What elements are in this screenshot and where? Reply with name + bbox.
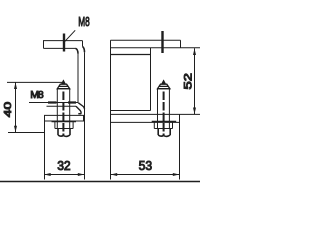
baseline ground line	[0, 181, 200, 183]
right view: bolt end below nut with round bottom	[158, 129, 170, 137]
right view: bolt outer lines	[158, 89, 170, 129]
left view: top flange outline	[43, 40, 83, 48]
left view: jaw lower line	[47, 105, 77, 107]
dimension 53: dimension line	[111, 174, 180, 176]
right view: extension line right for 53	[179, 114, 181, 179]
right view: top plate inner lower line	[111, 54, 151, 56]
left view: web vertical lines	[78, 52, 85, 115]
left view: jaw hook curve	[76, 103, 85, 114]
dimension 32: dimension line	[44, 174, 85, 176]
dimension 32: arrowheads	[44, 173, 84, 176]
right view: bolt threaded center thick bar	[163, 92, 165, 137]
svg-text:52: 52	[182, 73, 194, 90]
right view: washer under plate	[152, 121, 177, 123]
dimension 40: arrowheads	[14, 82, 17, 132]
dimension 53: arrowheads	[111, 173, 180, 176]
left view: nut	[55, 122, 73, 129]
right view: body outline	[111, 40, 151, 179]
right view: top plate lines	[111, 40, 201, 48]
right view: nut	[154, 122, 172, 129]
left view: jaw upper line with dark teeth	[29, 102, 78, 104]
left view: bolt threaded center thick bar	[62, 92, 64, 137]
svg-text:53: 53	[139, 158, 153, 173]
right view: bolt tip chamfer	[162, 80, 166, 83]
dimension 40: dimension line	[15, 82, 17, 132]
left view: bolt outer lines	[57, 89, 69, 129]
left view: bolt end below nut with round bottom	[58, 129, 70, 137]
left view: bend arcs to web	[76, 47, 85, 54]
dimension 40: extension lines	[7, 82, 62, 132]
right view: M8 hole thick mark	[161, 31, 163, 53]
svg-text:40: 40	[2, 101, 14, 117]
dimension 52: dimension line	[194, 48, 196, 114]
left view: bolt tip chamfer	[62, 80, 66, 83]
svg-text:32: 32	[57, 158, 70, 173]
right view: bolt top washer trapezoid	[158, 84, 170, 89]
left view: bottom plate	[44, 115, 85, 121]
svg-text:M8: M8	[30, 89, 44, 101]
leader line for top M8 label	[63, 30, 75, 43]
right view: bottom plate	[111, 114, 201, 122]
left view: bolt top washer trapezoid	[57, 84, 69, 89]
left view: M8 tapped hole thick mark	[63, 34, 65, 52]
left view: washer under plate	[52, 121, 77, 123]
svg-text:M8: M8	[78, 14, 90, 29]
left view: extension lines down to 32 dim	[45, 115, 85, 180]
dimension 52: arrowheads	[193, 48, 196, 114]
